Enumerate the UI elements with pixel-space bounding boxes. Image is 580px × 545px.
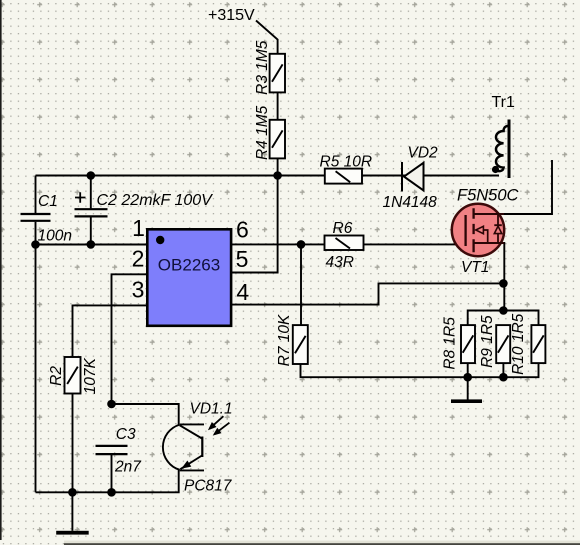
optocoupler base bar [201, 437, 203, 458]
optocoupler emitter diagonal [180, 456, 202, 470]
wire pin1 to left rail [36, 244, 148, 246]
junction node C2 bottom [87, 240, 96, 249]
wire drain to transformer [474, 160, 552, 214]
wire C1 bottom down left rail [35, 222, 37, 493]
ground 1 bar [56, 531, 88, 535]
svg-text:PC817: PC817 [184, 478, 233, 495]
resistor R4 [270, 120, 285, 159]
optocoupler emitter arrowhead [181, 461, 191, 469]
svg-text:R6: R6 [333, 220, 353, 237]
junction node R4 bottom [273, 171, 282, 180]
optocoupler VD1.1 phototransistor arc [163, 425, 180, 470]
svg-text:R7 10K: R7 10K [276, 314, 293, 366]
wire R2 bottom [72, 394, 74, 493]
light arrow 1 [210, 416, 224, 429]
light arrow 2 [214, 423, 229, 435]
capacitor C2 [75, 209, 108, 216]
wire +315V diagonal to R3 top [256, 21, 278, 54]
wire shunt top rail [468, 311, 539, 326]
optocoupler emitter stub [180, 469, 204, 471]
optocoupler collector diagonal [180, 425, 202, 438]
svg-text:107K: 107K [82, 357, 99, 394]
wire opto collector top [112, 404, 179, 425]
svg-text:43R: 43R [326, 254, 354, 271]
resistor R5 [325, 169, 362, 184]
junction node shunt top [499, 306, 508, 315]
svg-text:6: 6 [236, 216, 249, 242]
svg-text:R4 1M5: R4 1M5 [254, 105, 271, 160]
svg-text:1N4148: 1N4148 [383, 194, 438, 211]
wire C3 bottom stub [111, 455, 113, 493]
svg-text:1: 1 [132, 215, 145, 241]
IC U1 OB2263 [147, 229, 231, 325]
resistor R9 [496, 325, 510, 363]
svg-text:5: 5 [236, 246, 249, 272]
wire C2 top stub [90, 176, 92, 209]
junction node C3 bottom [107, 488, 116, 497]
MOSFET VT1 body [452, 204, 504, 256]
wire R7 branch [300, 244, 302, 325]
wire C2 bottom stub [90, 217, 92, 244]
wire R3 bottom to R4 top [277, 92, 279, 119]
svg-text:R10 1R5: R10 1R5 [510, 313, 527, 375]
junction node C3 top [107, 400, 116, 409]
wire ground2 stem [467, 377, 469, 400]
wire main top horizontal net [36, 175, 500, 177]
wire pin5 up to top net [231, 176, 278, 273]
junction node R9 bottom [499, 373, 508, 382]
svg-text:C1: C1 [38, 193, 58, 210]
capacitor C3 [96, 446, 128, 454]
junction node C1 pin1 [31, 240, 40, 249]
svg-text:VT1: VT1 [461, 259, 489, 276]
wire opto emitter bottom rail [36, 470, 179, 493]
svg-text:R5 10R: R5 10R [320, 154, 373, 171]
junction node R2 bottom [68, 488, 77, 497]
svg-text:R8 1R5: R8 1R5 [442, 317, 459, 370]
svg-text:2: 2 [132, 245, 145, 271]
optocoupler collector stub [180, 423, 204, 425]
transformer Tr1 core [508, 120, 511, 179]
diode VD2 [402, 162, 424, 192]
svg-text:F5N50C: F5N50C [457, 187, 519, 205]
resistor R8 [461, 325, 475, 363]
svg-text:C3: C3 [116, 426, 136, 443]
svg-text:+315V: +315V [208, 7, 255, 24]
resistor R10 [531, 325, 545, 363]
MOSFET body arrow [476, 226, 484, 233]
svg-text:VD2: VD2 [408, 144, 439, 161]
wire pin4 to source node [231, 283, 504, 304]
transformer Tr1 winding [496, 126, 509, 171]
svg-text:VD1.1: VD1.1 [190, 400, 233, 417]
svg-text:2n7: 2n7 [114, 458, 142, 475]
svg-text:Tr1: Tr1 [492, 94, 516, 111]
resistor R6 [325, 236, 364, 251]
wire shunt bottom rail [301, 364, 539, 378]
wire pin6 to gate [231, 243, 466, 245]
resistor R7 [293, 325, 308, 364]
wire left vertical to C1 top [35, 176, 37, 214]
svg-text:R9 1R5: R9 1R5 [479, 315, 496, 368]
junction node C2 top [87, 171, 96, 180]
ground 2 bar [451, 399, 482, 403]
resistor R3 [270, 54, 285, 93]
svg-text:R2: R2 [48, 366, 65, 386]
junction node R8 bottom [463, 373, 472, 382]
bottom border strip [64, 541, 580, 544]
C2 plus sign [75, 192, 86, 203]
MOSFET body diode [494, 214, 502, 243]
resistor R2 [65, 357, 81, 394]
junction node R7 top branch [297, 240, 306, 249]
wire pin2 to C3 node [112, 274, 148, 404]
transformer winding start dot [492, 166, 499, 173]
MOSFET gate bar [464, 215, 466, 246]
svg-text:3: 3 [132, 276, 145, 302]
MOSFET drain/source internal leads [474, 214, 505, 243]
junction node source pin4 [499, 279, 508, 288]
IC pin1 marker dot [156, 236, 164, 244]
capacitor C1 [21, 214, 51, 221]
svg-text:100n: 100n [38, 227, 72, 244]
wire source down [474, 243, 505, 311]
wire pin3 to R2 [73, 305, 148, 357]
left border line [0, 0, 2, 540]
svg-text:C2 22mkF 100V: C2 22mkF 100V [97, 192, 214, 209]
wire ground1 stem [71, 492, 73, 531]
svg-text:4: 4 [236, 279, 249, 305]
MOSFET channel segments [472, 208, 474, 252]
svg-text:OB2263: OB2263 [158, 256, 220, 275]
svg-text:R3 1M5: R3 1M5 [254, 40, 271, 95]
wire R4 bottom to node [277, 158, 279, 175]
